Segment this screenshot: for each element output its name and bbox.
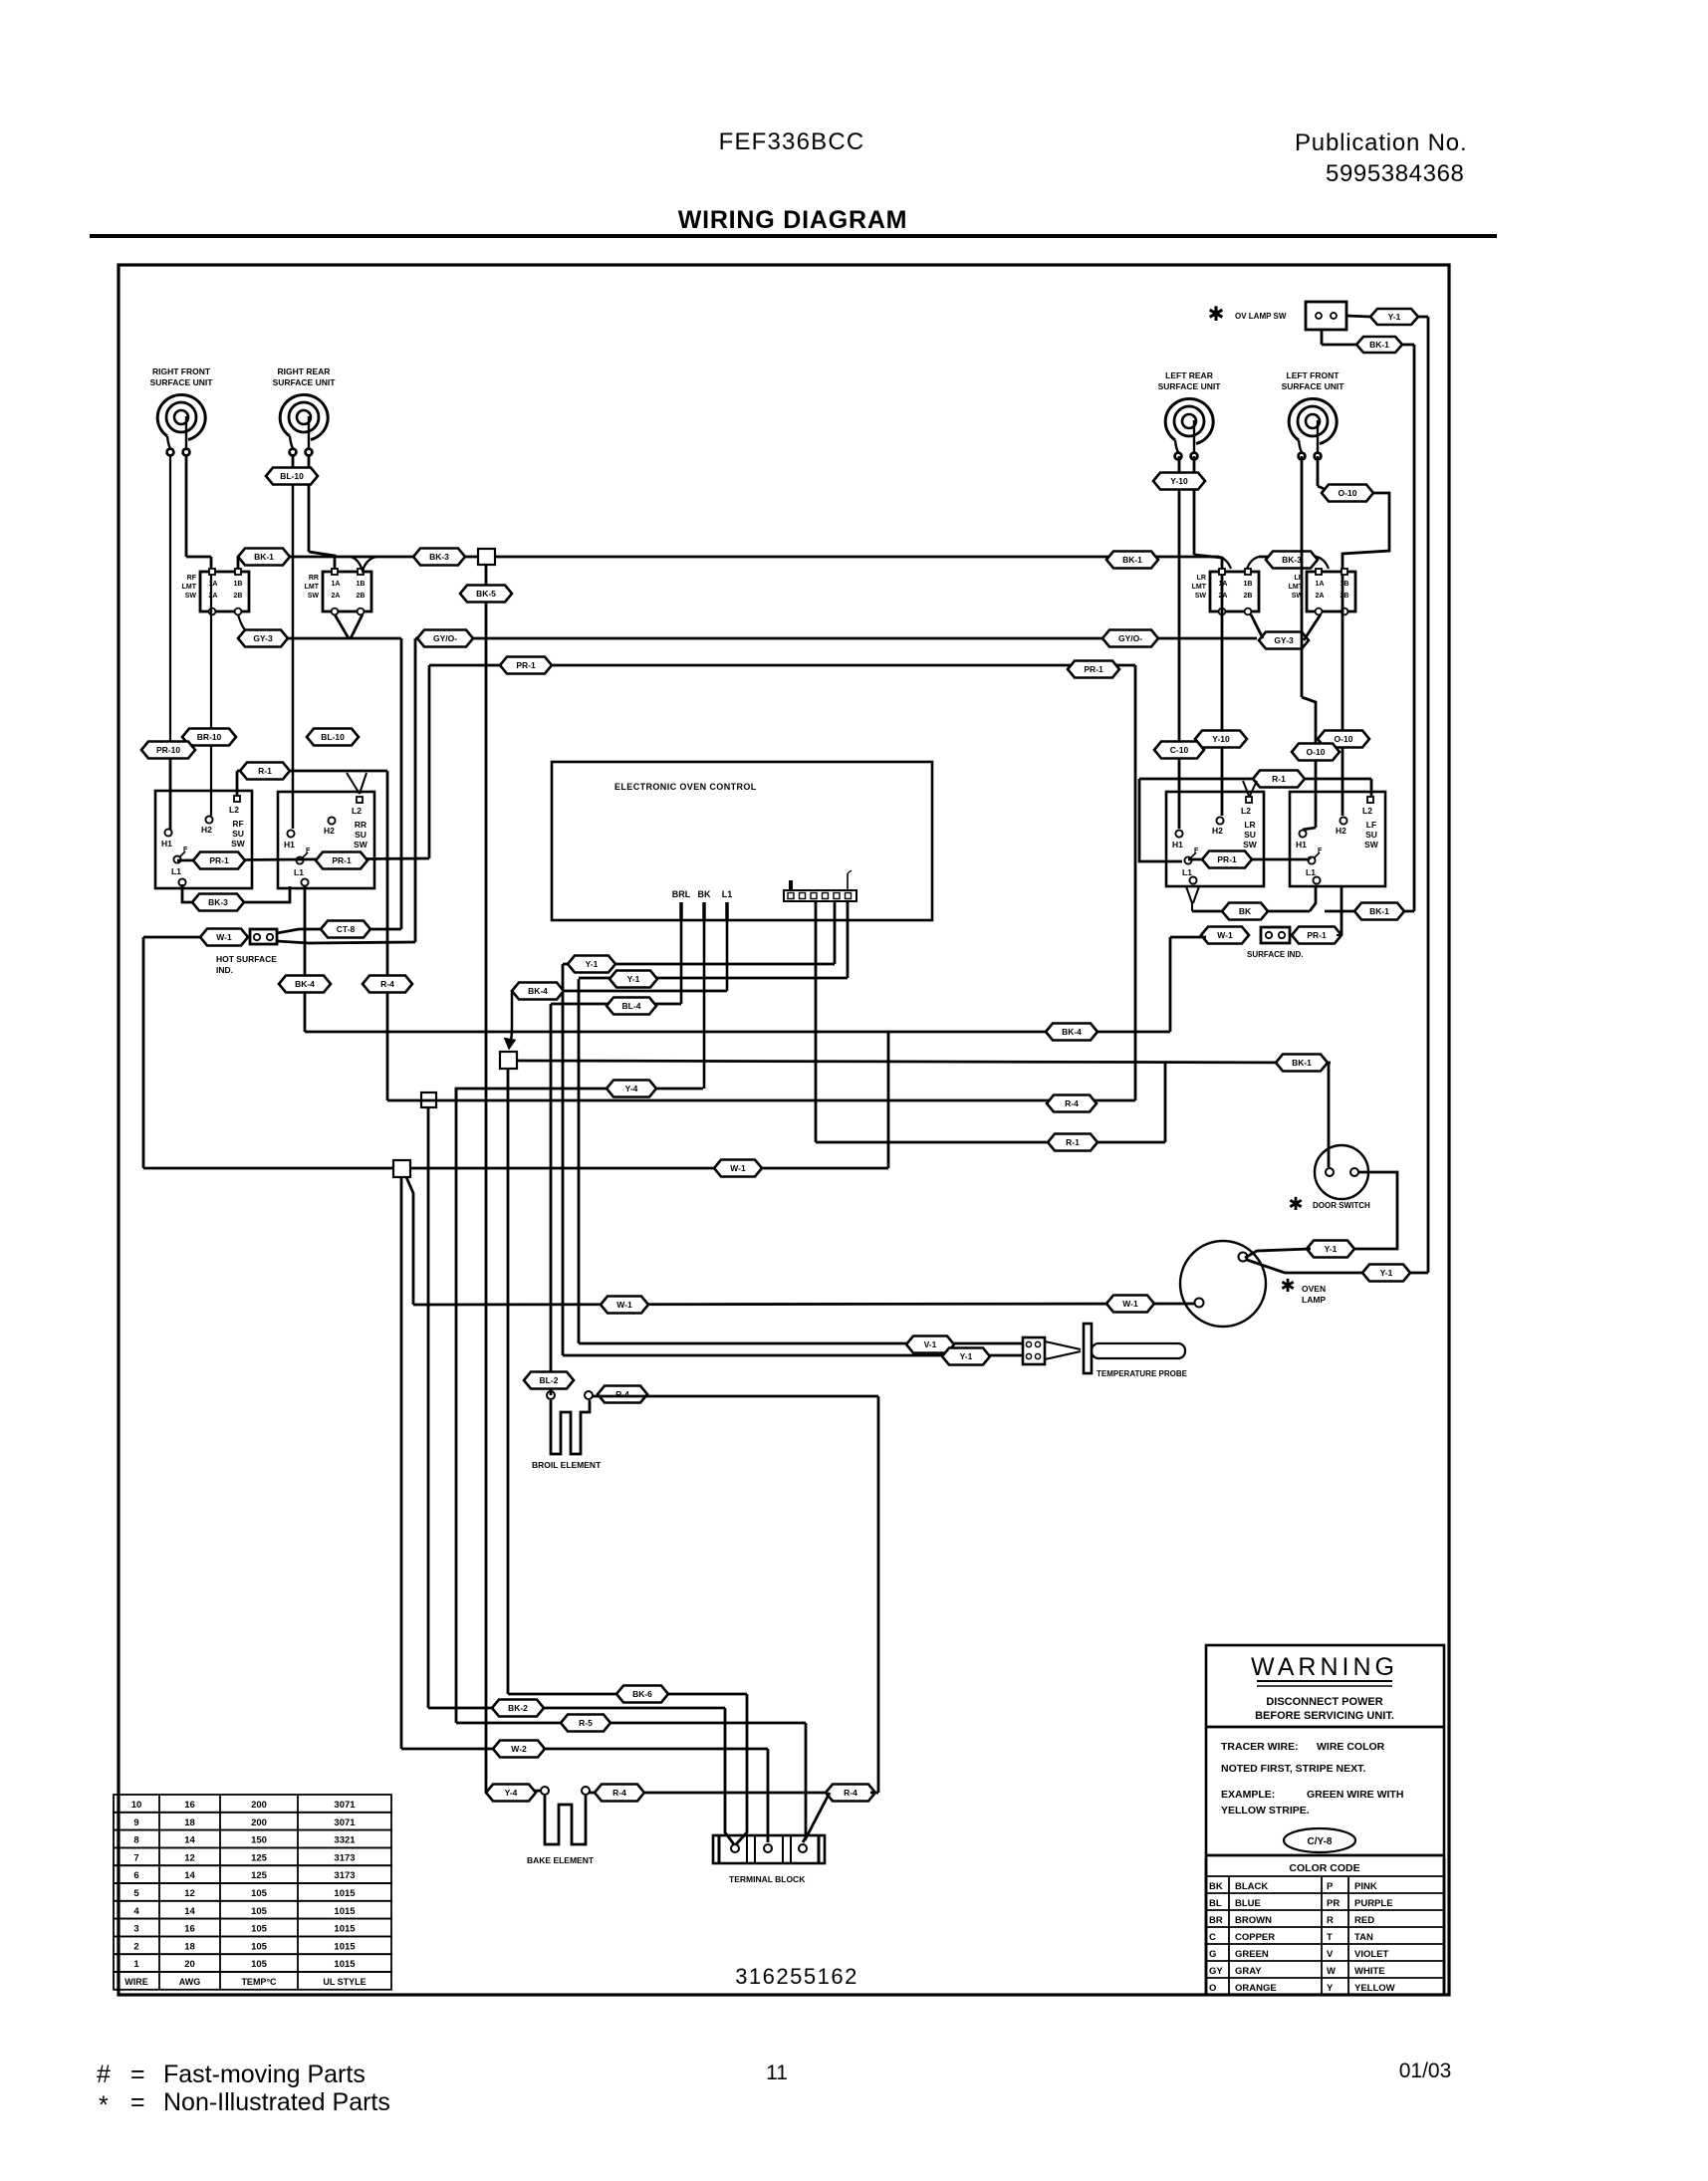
svg-text:4: 4 — [133, 1906, 139, 1917]
svg-text:1: 1 — [133, 1959, 139, 1970]
svg-text:GY/O-: GY/O- — [1118, 633, 1142, 643]
svg-text:C-10: C-10 — [1170, 745, 1189, 755]
svg-text:BL-10: BL-10 — [280, 471, 304, 481]
svg-text:YELLOW: YELLOW — [1354, 1983, 1395, 1994]
svg-text:2B: 2B — [234, 593, 243, 600]
svg-text:RED: RED — [1354, 1915, 1374, 1926]
svg-text:Y-1: Y-1 — [586, 959, 599, 969]
svg-text:2B: 2B — [357, 593, 366, 600]
svg-text:PR-1: PR-1 — [1217, 854, 1237, 864]
svg-text:T: T — [1327, 1932, 1333, 1943]
svg-text:BK-3: BK-3 — [429, 552, 449, 562]
svg-text:BK: BK — [698, 889, 711, 899]
svg-text:Y-4: Y-4 — [505, 1788, 518, 1798]
svg-text:125: 125 — [251, 1852, 268, 1863]
svg-text:FEF336BCC: FEF336BCC — [719, 128, 865, 155]
svg-text:L1: L1 — [171, 866, 181, 876]
svg-text:Y-4: Y-4 — [625, 1084, 638, 1093]
svg-text:7: 7 — [133, 1852, 138, 1863]
svg-text:R-4: R-4 — [844, 1788, 857, 1798]
svg-text:BROWN: BROWN — [1235, 1915, 1272, 1926]
svg-text:TAN: TAN — [1354, 1932, 1373, 1943]
svg-text:105: 105 — [251, 1924, 268, 1935]
svg-text:BK-3: BK-3 — [208, 897, 228, 907]
svg-text:BL-4: BL-4 — [622, 1001, 641, 1011]
svg-text:BK-6: BK-6 — [632, 1689, 652, 1699]
svg-text:2A: 2A — [209, 593, 218, 600]
svg-text:5995384368: 5995384368 — [1326, 160, 1464, 187]
svg-text:LEFT REAR: LEFT REAR — [1165, 370, 1213, 380]
svg-text:RR: RR — [309, 575, 319, 582]
svg-text:L1: L1 — [1182, 867, 1192, 877]
svg-text:SURFACE UNIT: SURFACE UNIT — [1158, 381, 1222, 391]
svg-text:1B: 1B — [1244, 581, 1253, 588]
svg-text:V: V — [1327, 1949, 1334, 1960]
svg-text:UL STYLE: UL STYLE — [323, 1977, 366, 1987]
svg-text:OV LAMP SW: OV LAMP SW — [1235, 312, 1287, 321]
svg-text:O-10: O-10 — [1307, 747, 1326, 757]
svg-text:RF: RF — [187, 575, 197, 582]
svg-text:TEMP°C: TEMP°C — [241, 1977, 277, 1987]
svg-text:GY: GY — [1209, 1966, 1223, 1977]
svg-text:SW: SW — [1364, 840, 1379, 849]
svg-text:BEFORE SERVICING UNIT.: BEFORE SERVICING UNIT. — [1255, 1710, 1394, 1722]
svg-text:316255162: 316255162 — [735, 1964, 858, 1989]
svg-text:ELECTRONIC OVEN CONTROL: ELECTRONIC OVEN CONTROL — [614, 782, 757, 792]
svg-text:PINK: PINK — [1354, 1881, 1377, 1892]
svg-text:200: 200 — [251, 1817, 267, 1828]
svg-text:O: O — [1209, 1983, 1216, 1994]
svg-text:✱: ✱ — [1288, 1194, 1303, 1214]
svg-text:H1: H1 — [1296, 840, 1307, 849]
svg-text:12: 12 — [184, 1852, 195, 1863]
svg-text:SW: SW — [354, 840, 368, 849]
svg-text:WHITE: WHITE — [1354, 1966, 1385, 1977]
svg-text:Y-1: Y-1 — [627, 974, 640, 984]
svg-text:125: 125 — [251, 1870, 268, 1881]
svg-text:Y-1: Y-1 — [1380, 1268, 1393, 1278]
svg-text:LMT: LMT — [1192, 584, 1207, 591]
svg-text:SURFACE UNIT: SURFACE UNIT — [1282, 381, 1345, 391]
svg-text:3173: 3173 — [334, 1870, 355, 1881]
svg-text:BAKE ELEMENT: BAKE ELEMENT — [527, 1855, 595, 1865]
svg-text:BK-2: BK-2 — [508, 1703, 528, 1713]
svg-text:3: 3 — [133, 1924, 138, 1935]
svg-text:105: 105 — [251, 1888, 268, 1899]
svg-text:*: * — [99, 2091, 109, 2119]
svg-text:12: 12 — [184, 1888, 195, 1899]
svg-text:BL-2: BL-2 — [540, 1375, 559, 1385]
svg-text:SW: SW — [1243, 840, 1258, 849]
svg-text:PR-1: PR-1 — [332, 855, 352, 865]
svg-text:20: 20 — [184, 1959, 195, 1970]
svg-text:1A: 1A — [1316, 581, 1325, 588]
svg-text:14: 14 — [184, 1906, 195, 1917]
svg-text:H1: H1 — [161, 839, 172, 848]
svg-text:R-1: R-1 — [1272, 774, 1286, 784]
svg-text:BR-10: BR-10 — [197, 732, 222, 742]
svg-text:PR-1: PR-1 — [516, 660, 536, 670]
svg-text:PR-1: PR-1 — [1307, 930, 1327, 940]
svg-text:W-1: W-1 — [730, 1163, 746, 1173]
svg-text:16: 16 — [184, 1800, 195, 1811]
svg-text:R-4: R-4 — [1065, 1098, 1079, 1108]
svg-text:AWG: AWG — [179, 1977, 201, 1987]
svg-text:=: = — [130, 2060, 145, 2088]
svg-text:200: 200 — [251, 1800, 267, 1811]
svg-text:W: W — [1327, 1966, 1336, 1977]
svg-text:BK-1: BK-1 — [1369, 340, 1389, 350]
svg-text:SW: SW — [231, 839, 246, 848]
svg-text:1B: 1B — [357, 581, 366, 588]
svg-text:DISCONNECT POWER: DISCONNECT POWER — [1266, 1696, 1382, 1708]
svg-text:1B: 1B — [234, 581, 243, 588]
svg-text:WARNING: WARNING — [1251, 1653, 1398, 1681]
svg-text:2A: 2A — [332, 593, 341, 600]
svg-text:150: 150 — [251, 1835, 267, 1846]
svg-text:6: 6 — [133, 1870, 138, 1881]
svg-text:1A: 1A — [332, 581, 341, 588]
svg-text:2: 2 — [133, 1941, 138, 1952]
svg-text:SU: SU — [355, 830, 366, 840]
svg-text:10: 10 — [131, 1800, 142, 1811]
svg-text:BK-4: BK-4 — [528, 986, 548, 996]
svg-text:BK-3: BK-3 — [1282, 555, 1302, 565]
svg-text:2A: 2A — [1316, 593, 1325, 600]
svg-text:F: F — [183, 847, 188, 853]
svg-text:SU: SU — [232, 829, 244, 839]
svg-text:BK-5: BK-5 — [476, 589, 496, 599]
svg-text:F: F — [306, 848, 311, 854]
svg-text:LAMP: LAMP — [1302, 1295, 1326, 1305]
svg-text:BK-4: BK-4 — [295, 979, 315, 989]
svg-text:Publication No.: Publication No. — [1295, 129, 1467, 156]
svg-text:BK: BK — [1209, 1881, 1223, 1892]
svg-text:W-1: W-1 — [616, 1300, 632, 1310]
svg-text:GRAY: GRAY — [1235, 1966, 1262, 1977]
svg-text:COPPER: COPPER — [1235, 1932, 1275, 1943]
svg-text:105: 105 — [251, 1906, 268, 1917]
svg-text:1015: 1015 — [334, 1924, 356, 1935]
svg-text:Y-1: Y-1 — [960, 1351, 973, 1361]
svg-text:O-10: O-10 — [1335, 734, 1353, 744]
svg-text:PR: PR — [1327, 1898, 1340, 1909]
svg-text:V-1: V-1 — [924, 1339, 937, 1349]
svg-text:1015: 1015 — [334, 1941, 356, 1952]
svg-text:=: = — [130, 2088, 145, 2116]
svg-text:L2: L2 — [1362, 806, 1372, 816]
svg-text:GY/O-: GY/O- — [433, 633, 457, 643]
svg-text:LEFT FRONT: LEFT FRONT — [1287, 370, 1341, 380]
svg-text:SU: SU — [1365, 830, 1377, 840]
svg-text:H1: H1 — [1172, 840, 1183, 849]
svg-text:3321: 3321 — [334, 1835, 356, 1846]
svg-text:GY-3: GY-3 — [253, 633, 273, 643]
svg-text:01/03: 01/03 — [1399, 2060, 1452, 2082]
svg-text:LR: LR — [1244, 820, 1255, 830]
svg-text:OVEN: OVEN — [1302, 1284, 1326, 1294]
svg-text:WIRE: WIRE — [124, 1977, 148, 1987]
svg-text:HOT SURFACE: HOT SURFACE — [216, 954, 277, 964]
svg-text:14: 14 — [184, 1835, 195, 1846]
svg-text:W-1: W-1 — [1217, 930, 1233, 940]
svg-text:BRL: BRL — [672, 889, 691, 899]
svg-text:BK-1: BK-1 — [254, 552, 274, 562]
svg-text:BL-10: BL-10 — [321, 732, 345, 742]
svg-text:105: 105 — [251, 1959, 268, 1970]
svg-text:H2: H2 — [1212, 826, 1223, 836]
svg-text:18: 18 — [184, 1941, 195, 1952]
svg-text:9: 9 — [133, 1817, 138, 1828]
svg-text:PR-1: PR-1 — [209, 855, 229, 865]
svg-text:RF: RF — [232, 819, 243, 829]
svg-text:RR: RR — [355, 820, 366, 830]
svg-text:105: 105 — [251, 1941, 268, 1952]
svg-text:2B: 2B — [1244, 593, 1253, 600]
svg-text:BK-1: BK-1 — [1292, 1058, 1312, 1068]
svg-text:H2: H2 — [324, 826, 335, 836]
svg-text:R-4: R-4 — [612, 1788, 626, 1798]
svg-text:SURFACE UNIT: SURFACE UNIT — [273, 377, 337, 387]
svg-text:R-4: R-4 — [380, 979, 394, 989]
svg-text:Y-1: Y-1 — [1388, 312, 1401, 322]
svg-text:CT-8: CT-8 — [337, 924, 356, 934]
svg-text:Fast-moving Parts: Fast-moving Parts — [163, 2060, 366, 2088]
svg-text:GREEN WIRE WITH: GREEN WIRE WITH — [1307, 1789, 1403, 1801]
svg-text:GREEN: GREEN — [1235, 1949, 1269, 1960]
svg-text:3071: 3071 — [334, 1817, 356, 1828]
svg-text:BL: BL — [1209, 1898, 1222, 1909]
svg-text:LMT: LMT — [305, 584, 320, 591]
svg-text:W-1: W-1 — [216, 932, 232, 942]
svg-text:DOOR SWITCH: DOOR SWITCH — [1313, 1201, 1370, 1210]
svg-text:PURPLE: PURPLE — [1354, 1898, 1393, 1909]
svg-text:Y: Y — [1327, 1983, 1334, 1994]
svg-text:BK-4: BK-4 — [1062, 1027, 1082, 1037]
svg-text:Y-10: Y-10 — [1212, 734, 1230, 744]
svg-text:16: 16 — [184, 1924, 195, 1935]
svg-text:L1: L1 — [722, 889, 733, 899]
svg-text:TEMPERATURE PROBE: TEMPERATURE PROBE — [1097, 1369, 1188, 1378]
svg-text:L1: L1 — [294, 867, 304, 877]
svg-text:L1: L1 — [1306, 867, 1316, 877]
svg-text:5: 5 — [133, 1888, 139, 1899]
svg-text:L2: L2 — [1241, 806, 1251, 816]
svg-text:R: R — [1327, 1915, 1334, 1926]
svg-text:✱: ✱ — [1208, 304, 1225, 326]
svg-text:SW: SW — [308, 593, 320, 600]
svg-text:Y-10: Y-10 — [1170, 476, 1188, 486]
svg-text:TRACER WIRE:: TRACER WIRE: — [1221, 1741, 1299, 1753]
svg-text:W-1: W-1 — [1122, 1299, 1138, 1309]
svg-text:SURFACE IND.: SURFACE IND. — [1247, 950, 1303, 959]
svg-text:C: C — [1209, 1932, 1216, 1943]
svg-text:ORANGE: ORANGE — [1235, 1983, 1277, 1994]
svg-text:1015: 1015 — [334, 1888, 356, 1899]
svg-text:#: # — [97, 2060, 111, 2088]
svg-text:18: 18 — [184, 1817, 195, 1828]
svg-text:3071: 3071 — [334, 1800, 356, 1811]
svg-text:SU: SU — [1244, 830, 1256, 840]
svg-text:R-4: R-4 — [615, 1389, 629, 1399]
svg-text:WIRE COLOR: WIRE COLOR — [1317, 1741, 1385, 1753]
svg-text:BLACK: BLACK — [1235, 1881, 1268, 1892]
svg-text:PR-1: PR-1 — [1084, 664, 1103, 674]
svg-text:LR: LR — [1197, 575, 1206, 582]
svg-text:L2: L2 — [352, 806, 362, 816]
svg-text:1015: 1015 — [334, 1959, 356, 1970]
svg-text:LMT: LMT — [182, 584, 197, 591]
svg-text:H2: H2 — [201, 825, 212, 835]
svg-text:P: P — [1327, 1881, 1334, 1892]
svg-text:1015: 1015 — [334, 1906, 356, 1917]
svg-text:3173: 3173 — [334, 1852, 355, 1863]
svg-text:RIGHT REAR: RIGHT REAR — [278, 366, 331, 376]
svg-text:1A: 1A — [209, 581, 218, 588]
svg-text:H2: H2 — [1336, 826, 1346, 836]
svg-text:11: 11 — [766, 2061, 788, 2084]
svg-text:H1: H1 — [284, 840, 295, 849]
svg-text:W-2: W-2 — [511, 1744, 527, 1754]
svg-text:VIOLET: VIOLET — [1354, 1949, 1389, 1960]
svg-text:BK: BK — [1239, 906, 1252, 916]
svg-text:PR-10: PR-10 — [156, 745, 180, 755]
svg-text:GY-3: GY-3 — [1274, 635, 1294, 645]
svg-text:8: 8 — [133, 1835, 138, 1846]
svg-text:BK-1: BK-1 — [1122, 555, 1142, 565]
svg-text:F: F — [1194, 848, 1199, 854]
svg-text:YELLOW STRIPE.: YELLOW STRIPE. — [1221, 1805, 1310, 1817]
svg-text:Non-Illustrated Parts: Non-Illustrated Parts — [163, 2088, 390, 2116]
svg-text:C/Y-8: C/Y-8 — [1307, 1836, 1332, 1847]
svg-text:COLOR CODE: COLOR CODE — [1289, 1862, 1359, 1874]
svg-text:Y-1: Y-1 — [1325, 1244, 1338, 1254]
svg-text:SW: SW — [185, 593, 197, 600]
svg-text:R-5: R-5 — [579, 1718, 593, 1728]
svg-text:BLUE: BLUE — [1235, 1898, 1261, 1909]
svg-text:L2: L2 — [229, 805, 239, 815]
svg-text:✱: ✱ — [1280, 1276, 1295, 1296]
svg-text:RIGHT FRONT: RIGHT FRONT — [152, 366, 211, 376]
svg-text:F: F — [1318, 848, 1323, 854]
svg-text:BROIL ELEMENT: BROIL ELEMENT — [532, 1460, 602, 1470]
svg-text:14: 14 — [184, 1870, 195, 1881]
svg-text:O-10: O-10 — [1339, 488, 1357, 498]
svg-text:LF: LF — [1366, 820, 1376, 830]
svg-text:R-1: R-1 — [258, 766, 272, 776]
svg-text:BR: BR — [1209, 1915, 1223, 1926]
svg-text:SURFACE UNIT: SURFACE UNIT — [150, 377, 214, 387]
svg-text:BK-1: BK-1 — [1369, 906, 1389, 916]
svg-text:NOTED FIRST, STRIPE NEXT.: NOTED FIRST, STRIPE NEXT. — [1221, 1763, 1365, 1775]
svg-text:EXAMPLE:: EXAMPLE: — [1221, 1789, 1275, 1801]
svg-text:IND.: IND. — [216, 965, 233, 975]
svg-text:SW: SW — [1195, 593, 1207, 600]
svg-text:TERMINAL BLOCK: TERMINAL BLOCK — [729, 1874, 806, 1884]
svg-text:R-1: R-1 — [1066, 1137, 1080, 1147]
svg-text:G: G — [1209, 1949, 1216, 1960]
svg-text:WIRING DIAGRAM: WIRING DIAGRAM — [678, 206, 908, 234]
